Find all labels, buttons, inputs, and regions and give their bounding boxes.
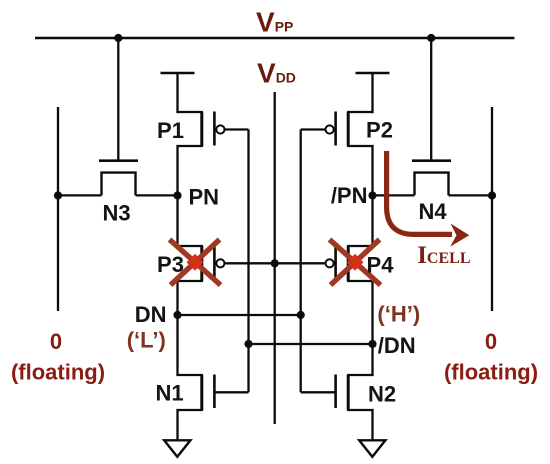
svg-text:DN: DN: [135, 302, 167, 327]
svg-text:P1: P1: [157, 118, 184, 143]
svg-text:(‘H’): (‘H’): [377, 302, 420, 327]
svg-text:N4: N4: [418, 199, 447, 224]
svg-text:N2: N2: [368, 382, 396, 407]
svg-text:(floating): (floating): [444, 360, 538, 385]
svg-text:N3: N3: [102, 201, 130, 226]
svg-text:(floating): (floating): [11, 360, 105, 385]
svg-text:0: 0: [50, 329, 62, 354]
svg-text:P2: P2: [366, 118, 393, 143]
svg-text:/DN: /DN: [378, 333, 416, 358]
svg-text:PN: PN: [189, 185, 220, 210]
svg-text:P3: P3: [157, 252, 184, 277]
svg-text:/PN: /PN: [331, 183, 368, 208]
svg-text:P4: P4: [367, 253, 395, 278]
svg-text:0: 0: [485, 329, 497, 354]
svg-text:N1: N1: [155, 381, 183, 406]
svg-text:(‘L’): (‘L’): [127, 328, 166, 353]
